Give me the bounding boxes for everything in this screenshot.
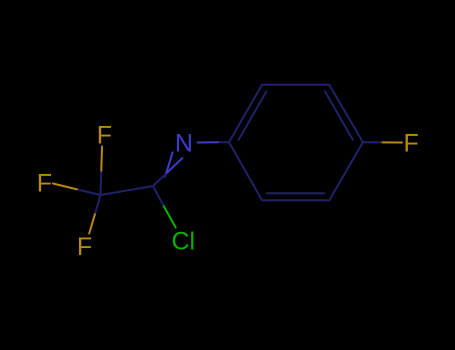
fluorine-colored half bonds xyxy=(53,142,402,233)
ring edge TR-R xyxy=(329,85,363,142)
bond ringR-F dark half xyxy=(363,141,383,143)
svg-text:F: F xyxy=(404,130,419,158)
bond C1-Cl dark half xyxy=(153,186,164,207)
ring edge BL-L xyxy=(229,142,262,200)
bond C1=N dark half (line 1) xyxy=(165,173,166,177)
ring inner double bond TR-R xyxy=(325,91,353,139)
bond C1-Cl green half xyxy=(164,206,176,227)
ring edge L-TL xyxy=(229,85,262,142)
bond C2-Fleft dark half xyxy=(77,189,101,195)
bond N-ring dark half xyxy=(218,141,229,143)
bond C2-Ftop dark half xyxy=(100,171,103,196)
svg-text:F: F xyxy=(97,122,112,150)
bond ringR-F gold half xyxy=(383,141,403,143)
svg-text:Cl: Cl xyxy=(171,228,195,256)
bond C2-Fleft gold half xyxy=(53,184,77,190)
bond C1=N dark half (line 2) xyxy=(153,172,168,186)
nitrogen-colored half bonds xyxy=(166,142,218,173)
bond C1-C2 xyxy=(101,186,154,195)
svg-text:N: N xyxy=(175,130,193,158)
bond C2-Fbottom dark half xyxy=(95,195,101,214)
ring edge TL-TR xyxy=(262,84,329,86)
bond C2-Ftop gold half xyxy=(100,147,103,171)
chlorine-colored half bond xyxy=(164,206,176,227)
bond C1=N blue half (line 1) xyxy=(166,152,172,173)
svg-text:F: F xyxy=(37,169,52,197)
ring inner double bond L-TL xyxy=(239,91,267,139)
benzene ring (carbon skeleton, dark navy) xyxy=(77,85,383,215)
ring edge BR-BL xyxy=(262,199,329,201)
bond C1=N blue half (line 2) xyxy=(168,158,183,172)
bond N-ring blue half xyxy=(198,141,219,143)
ring inner double bond BR-BL xyxy=(267,192,325,194)
ring edge R-BR xyxy=(329,142,363,200)
svg-text:F: F xyxy=(77,233,92,261)
bond C2-Fbottom gold half xyxy=(89,214,95,233)
wire xyxy=(53,85,402,234)
